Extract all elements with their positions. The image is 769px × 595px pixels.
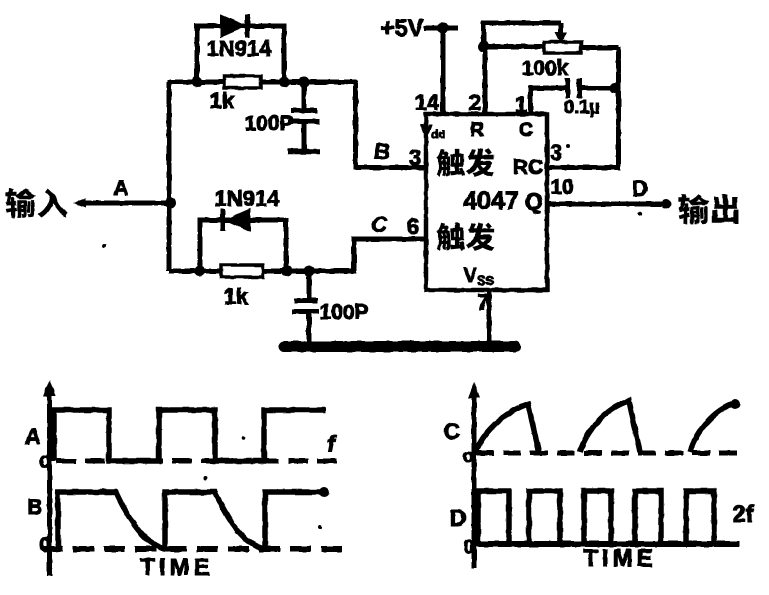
wire: pin 2 vertical <box>483 46 488 114</box>
wire: left vertical branch <box>167 82 172 271</box>
IC U1 4047 body <box>426 114 547 290</box>
svg-text:4047: 4047 <box>463 187 519 215</box>
svg-text:1: 1 <box>515 92 527 117</box>
svg-text:C: C <box>371 212 388 237</box>
node dot C3 right <box>610 83 621 94</box>
svg-text:14: 14 <box>415 90 440 115</box>
输入 input label <box>6 188 68 218</box>
svg-text:1N914: 1N914 <box>207 36 273 61</box>
plot A: square wave f <box>54 410 326 461</box>
wire: R3 right to RC vertical <box>581 45 619 50</box>
diode D1 (1N914) <box>221 14 248 38</box>
plot B waveform end blob <box>319 487 329 497</box>
svg-text:3: 3 <box>550 140 562 165</box>
resistor R3 100k body <box>544 42 581 53</box>
wire: net B (to pin 3) <box>356 80 427 168</box>
svg-text:100k: 100k <box>522 57 569 80</box>
svg-text:3: 3 <box>409 145 421 170</box>
svg-text:A: A <box>25 424 41 449</box>
svg-text:10: 10 <box>550 176 573 199</box>
svg-text:1N914: 1N914 <box>215 186 281 211</box>
svg-text:B: B <box>374 139 390 164</box>
wire: pin 14 vertical <box>441 28 446 114</box>
capacitor C1 100P <box>288 82 320 152</box>
plot AB: vertical axis <box>44 380 56 576</box>
svg-text:+5V: +5V <box>380 15 423 42</box>
svg-text:D: D <box>632 176 648 201</box>
svg-text:TIME: TIME <box>140 554 213 581</box>
svg-text:6: 6 <box>407 214 419 239</box>
wire: diode D2 loop <box>200 220 286 271</box>
plot D: square wave 2f <box>478 491 714 544</box>
junction dots upper rail <box>192 77 310 88</box>
plot C: sawtooth charging waveform <box>476 401 735 452</box>
apostrophe mark <box>566 144 570 148</box>
node dot pin2/R junction <box>478 41 489 52</box>
node A junction <box>165 198 176 209</box>
capacitor C2 100P <box>292 271 319 344</box>
svg-text:2f: 2f <box>732 501 754 528</box>
svg-text:A: A <box>113 177 128 200</box>
svg-text:o: o <box>39 450 51 472</box>
scan specks <box>102 212 642 529</box>
触发 trigger label 2 <box>436 223 494 251</box>
capacitor C3 0.1u <box>531 78 619 114</box>
plot C waveform end blob <box>730 399 740 409</box>
wire: +5V stub <box>424 26 458 31</box>
wire: upper branch horizontal (R1 rail) <box>167 80 357 85</box>
触发 trigger label 1 <box>436 149 494 177</box>
svg-text:B: B <box>27 496 42 519</box>
svg-text:R: R <box>470 120 484 141</box>
svg-text:TIME: TIME <box>583 545 656 572</box>
svg-text:1k: 1k <box>224 284 249 309</box>
svg-text:D: D <box>450 505 467 531</box>
plot B: RC decay waveform <box>58 492 327 549</box>
wire: lower branch horizontal (R2 rail) <box>169 269 356 274</box>
resistor R2 body <box>221 265 263 277</box>
wire: R junction to R3 left <box>484 44 545 49</box>
svg-text:0: 0 <box>39 534 51 557</box>
wire: input lead to node A <box>73 198 171 208</box>
plot CD: vertical axis <box>468 382 480 568</box>
output wire end blob <box>661 199 671 209</box>
wire: top loop to pot wiper <box>484 23 562 46</box>
wire: net C (to pin 6) <box>354 239 426 271</box>
svg-text:Q: Q <box>525 188 543 214</box>
输出 output label <box>679 194 739 224</box>
resistor R1 body <box>224 76 261 88</box>
ground rail <box>284 341 515 352</box>
plot B: dashed baseline <box>42 546 345 552</box>
node dot +5V <box>437 22 449 34</box>
wire: diode D1 loop <box>197 26 284 82</box>
svg-text:0: 0 <box>464 537 475 558</box>
svg-text:100P: 100P <box>319 301 368 324</box>
svg-text:2: 2 <box>469 90 481 115</box>
svg-text:100P: 100P <box>244 112 293 135</box>
plot C: dashed baseline <box>476 451 740 456</box>
svg-text:o: o <box>462 446 474 467</box>
pot wiper arrow <box>555 23 567 44</box>
plot D: baseline <box>476 541 740 547</box>
diode D2 (1N914) <box>223 209 251 231</box>
svg-text:C: C <box>519 120 533 141</box>
wire: RC net vertical + pin3 right <box>547 47 619 168</box>
svg-text:C: C <box>444 418 461 444</box>
svg-text:0.1µ: 0.1µ <box>564 97 599 117</box>
wire: pin 7 stub to ground <box>487 290 492 346</box>
plot A: dashed baseline <box>56 459 343 464</box>
svg-text:7: 7 <box>477 290 489 315</box>
svg-text:RC: RC <box>513 156 543 179</box>
junction dots lower rail <box>195 266 315 277</box>
wire: Q output (net D) <box>547 202 666 207</box>
svg-text:1k: 1k <box>210 88 235 113</box>
